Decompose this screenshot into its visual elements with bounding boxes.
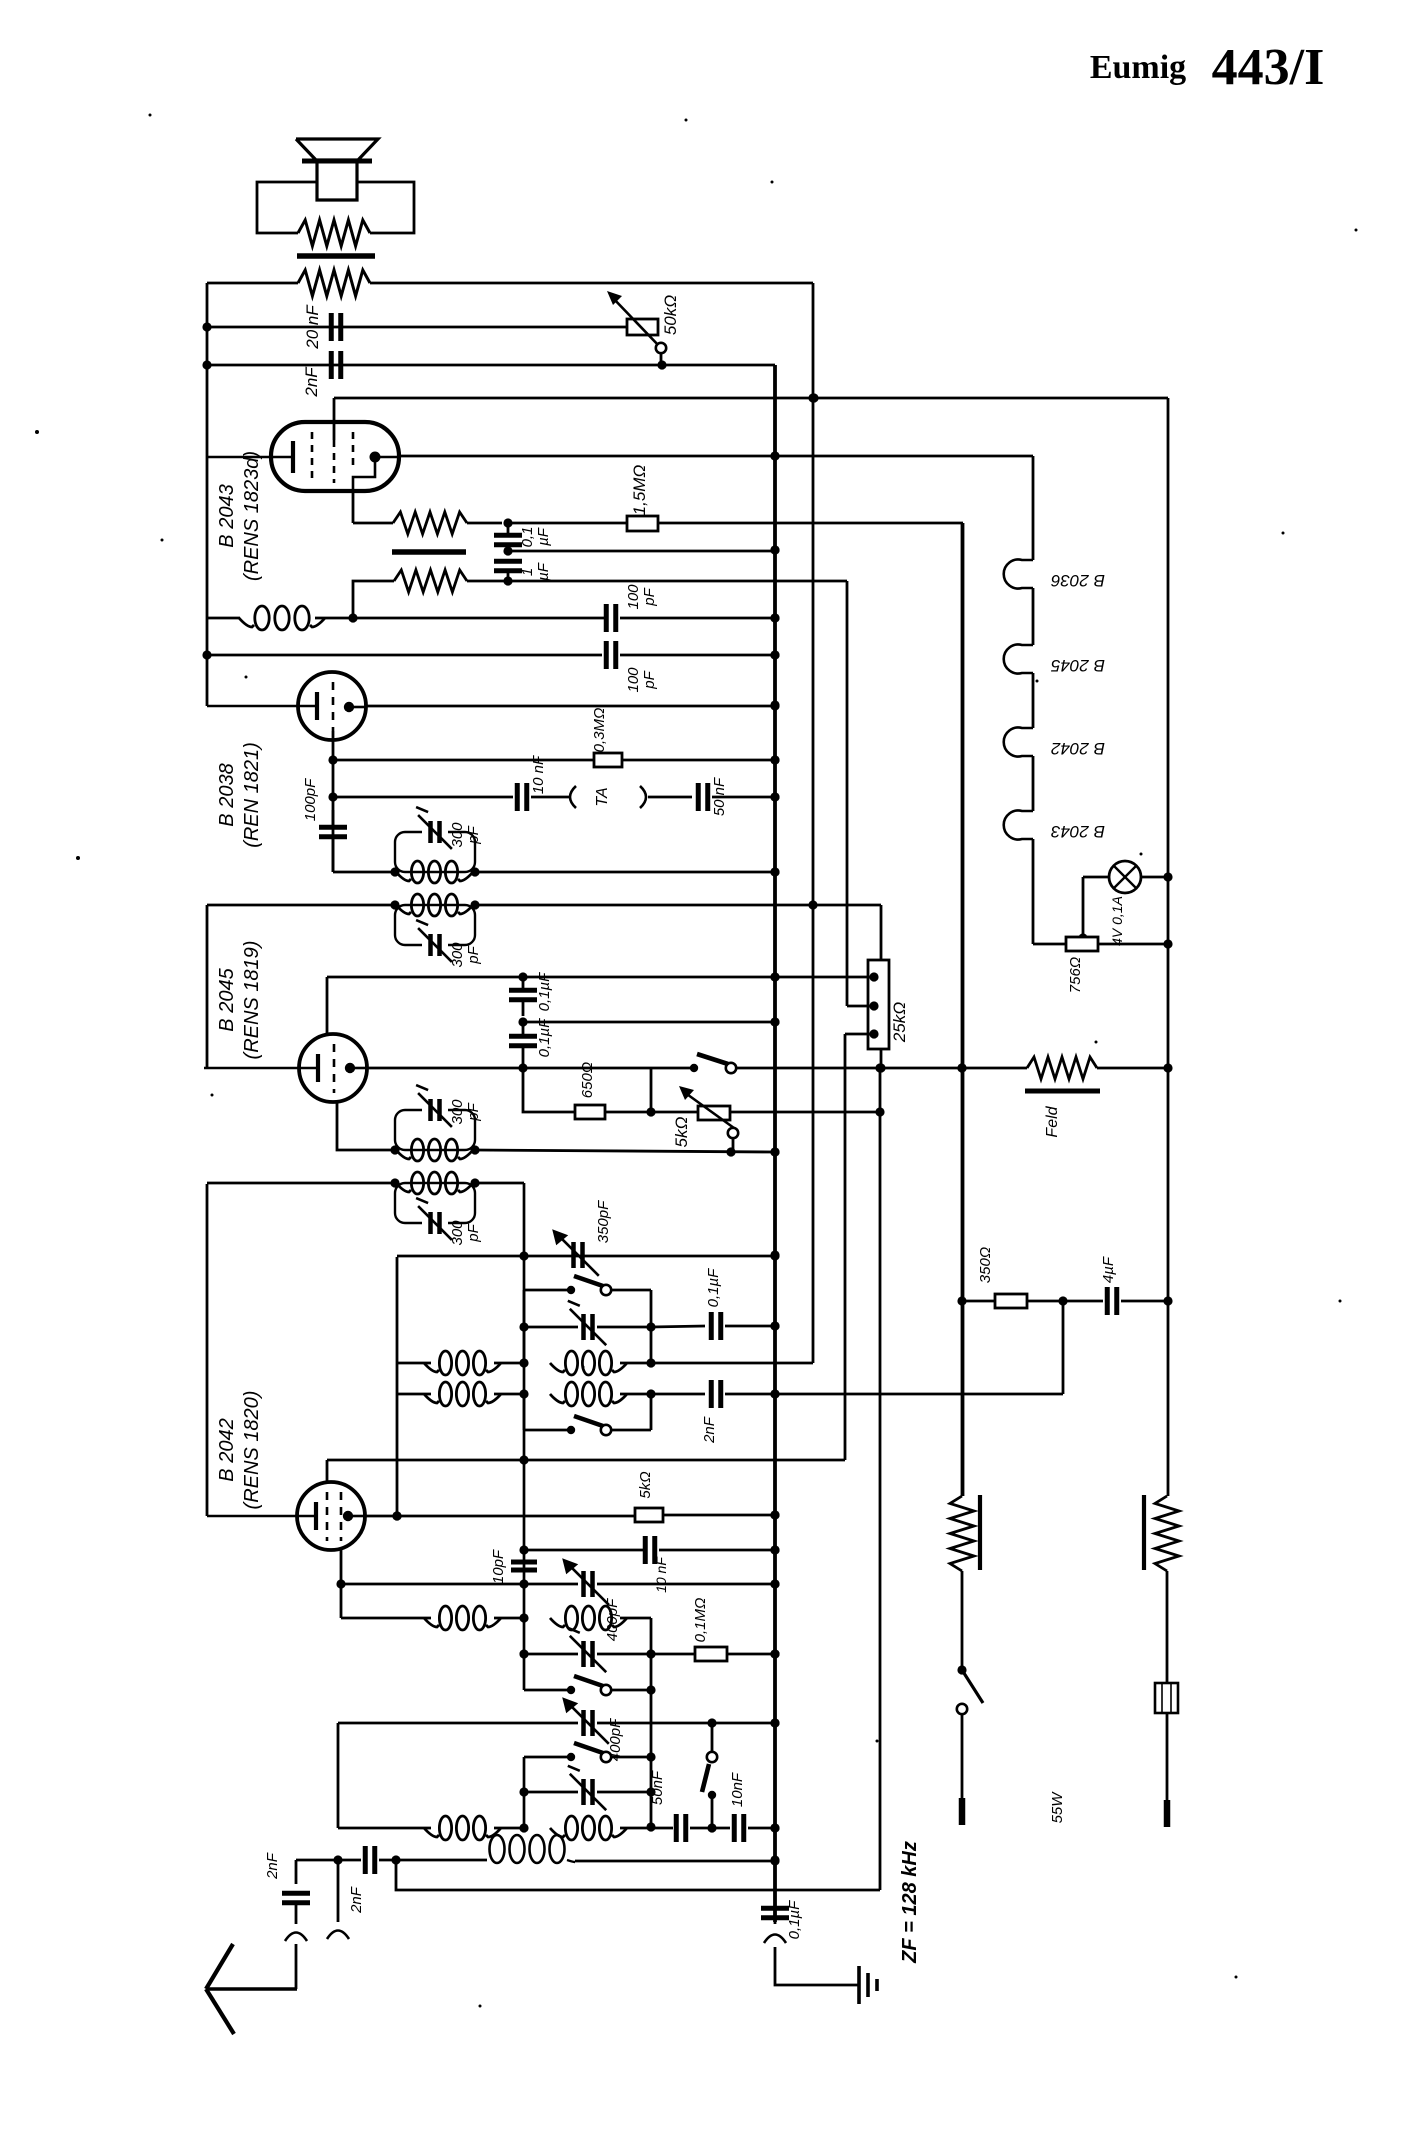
wire row y=550 [508, 545, 780, 554]
capacitor 4µF [1063, 1256, 1168, 1315]
resistor 5kΩ osc [635, 1471, 780, 1522]
svg-text:µF: µF [535, 527, 552, 546]
connector earth socket [327, 1860, 349, 1939]
svg-text:2nF: 2nF [701, 1416, 718, 1444]
svg-text:B 2043: B 2043 [216, 484, 238, 547]
tube heater B 2042 [1004, 728, 1105, 812]
heater resistor left 55W [950, 1495, 980, 1571]
svg-text:(RENS 1823d): (RENS 1823d) [241, 451, 263, 581]
wire pot tap1 y=977 [775, 976, 874, 979]
svg-text:B 2045: B 2045 [1051, 656, 1105, 675]
wire 4uF branch x=1061 [1062, 1301, 1065, 1394]
resistor 350Ω [962, 1247, 1068, 1308]
wire grid row y=1460 [327, 1455, 845, 1464]
resistor anode choke lower [348, 570, 508, 623]
capacitor 100pF a [606, 584, 779, 632]
wire heater-chain rail x=1033 [775, 456, 1033, 560]
resistor anode choke upper [353, 491, 502, 534]
svg-text:350pF: 350pF [595, 1200, 612, 1243]
bus junction dots [770, 451, 779, 1864]
tube B2045 (RENS 1819) [204, 977, 367, 1102]
svg-text:pF: pF [465, 1223, 482, 1242]
wire anode row y=455 [399, 451, 780, 460]
variable capacitor 350pF [552, 1200, 612, 1276]
switch cathode row [651, 1054, 736, 1073]
svg-text:10 nF: 10 nF [530, 755, 547, 794]
svg-text:1: 1 [519, 568, 536, 576]
tube B2042 (RENS 1820) [207, 1460, 365, 1584]
speaker LS [296, 139, 378, 200]
tuned circuit 300pF det-grid [390, 807, 482, 883]
resistor Feld field-coil [962, 1057, 1168, 1138]
wire rail x=962 [957, 523, 966, 1496]
wire grid rail x=332 [328, 755, 337, 872]
variable capacitor 400pF c [562, 1697, 779, 1761]
heater resistor right [1144, 1495, 1179, 1571]
inductor osc coil row y=1363 [397, 1351, 813, 1375]
wire pot tap2 y=1006 [847, 1005, 874, 1008]
variable capacitor 400pF a [562, 1558, 779, 1641]
svg-text:pF: pF [465, 825, 482, 844]
transformer primary winding [298, 220, 370, 246]
wire left rail mid (x=207) [206, 905, 209, 1068]
connector TA left [570, 786, 576, 808]
svg-text:µF: µF [535, 562, 552, 581]
svg-text:0,1µF: 0,1µF [786, 1900, 803, 1939]
wire row grid2 y=398 [334, 393, 1168, 402]
tuned circuit 300pF IF1-anode [390, 1085, 482, 1161]
wire row 2nF line y=365 [207, 360, 775, 369]
wire coil out y=1861 [575, 1856, 780, 1865]
svg-text:100: 100 [625, 584, 642, 610]
wire rect right x=651 lower [646, 1618, 655, 1832]
svg-text:10pF: 10pF [490, 1549, 507, 1584]
wire rect upper left x=525 [519, 1290, 528, 1368]
wire 650 ohm branch [523, 1068, 575, 1112]
resistor 0,1MΩ [692, 1598, 780, 1661]
wire row y=1550 [524, 1549, 643, 1552]
svg-text:Feld: Feld [1044, 1105, 1061, 1137]
svg-text:(REN 1821): (REN 1821) [241, 742, 263, 848]
svg-text:300: 300 [449, 1099, 466, 1125]
switch band b [524, 1676, 651, 1695]
potentiometer 5kΩ tone [672, 1086, 738, 1152]
switch vert [702, 1723, 717, 1828]
wire osc frame x=397 [392, 1257, 401, 1521]
transformer core [297, 253, 375, 259]
wire row y=655 [207, 654, 602, 657]
svg-text:pF: pF [641, 670, 658, 689]
svg-text:5kΩ: 5kΩ [672, 1116, 691, 1147]
capacitor 2nF mix [651, 1380, 1063, 1444]
connector antenna socket [285, 1933, 307, 1942]
svg-text:10 nF: 10 nF [653, 1556, 669, 1593]
tube heater B 2036 [1004, 560, 1105, 646]
resistor 756Ω [1033, 937, 1168, 993]
switch mains [957, 1571, 983, 1714]
svg-text:2nF: 2nF [348, 1886, 365, 1914]
svg-text:pF: pF [465, 945, 482, 964]
svg-text:0,3MΩ: 0,3MΩ [591, 708, 608, 753]
svg-text:B 2042: B 2042 [1051, 739, 1105, 758]
svg-text:756Ω: 756Ω [1067, 957, 1084, 993]
wire row antenna y=1860 [296, 1855, 343, 1864]
variable capacitor 300pF osc1 [524, 1301, 651, 1345]
mains plug pin right [1166, 1713, 1169, 1827]
svg-text:25kΩ: 25kΩ [890, 1002, 909, 1043]
variable capacitor 400pF b [524, 1628, 651, 1672]
wire column x=523 mid [519, 1183, 528, 1690]
wire row speaker line y=283 [207, 282, 813, 285]
capacitor 10nF ant [712, 1772, 780, 1842]
wire tank A to grid [333, 871, 395, 874]
label TA [594, 787, 611, 806]
resistor 650Ω [575, 1062, 656, 1119]
wire row y=977 [327, 972, 780, 981]
tube heater B 2045 [1004, 645, 1105, 729]
svg-text:pF: pF [465, 1102, 482, 1121]
antenna [206, 1944, 297, 2034]
svg-text:B 2045: B 2045 [216, 967, 238, 1031]
wire row y=1152 [475, 1147, 780, 1156]
tube B2038 (REN 1821) [207, 672, 366, 760]
wire tube to tank C [337, 1100, 395, 1150]
svg-text:(RENS 1819): (RENS 1819) [241, 941, 263, 1060]
svg-text:Eumig: Eumig [1090, 49, 1186, 86]
label ZF [899, 1841, 921, 1964]
wire row y=1183 right [475, 1182, 524, 1185]
wire column x=525 lowest [519, 1757, 528, 1827]
capacitor 2nF top [302, 351, 341, 398]
wire row y=1584 [336, 1579, 578, 1588]
wire grid coil row y=1618 [341, 1584, 651, 1630]
svg-text:0,1µF: 0,1µF [536, 1018, 553, 1057]
variable capacitor 400pF d [525, 1766, 651, 1810]
wire row y=1723 [338, 1722, 578, 1725]
svg-text:300: 300 [449, 1220, 466, 1246]
wire row y=1068 right [736, 1063, 967, 1072]
wire right rail x=813 [808, 283, 817, 1363]
svg-text:1,5MΩ: 1,5MΩ [630, 465, 649, 516]
capacitor 1µF interstage [494, 546, 552, 585]
capacitor 10nF osc [645, 1536, 779, 1593]
title Eumig 443/I [1090, 39, 1325, 96]
potentiometer 25kΩ [868, 960, 909, 1073]
capacitor 0,1µF screen b [509, 1018, 553, 1068]
resistor 1,5MΩ [627, 465, 658, 531]
svg-text:(RENS 1820): (RENS 1820) [241, 1391, 263, 1510]
svg-text:2nF: 2nF [302, 366, 321, 398]
svg-text:300: 300 [449, 822, 466, 848]
svg-text:50 nF: 50 nF [711, 777, 728, 816]
capacitor 0,1µF screen a [509, 972, 553, 1016]
svg-text:10nF: 10nF [729, 1772, 746, 1807]
wire row y=760 [333, 759, 594, 762]
svg-text:pF: pF [641, 587, 658, 606]
svg-text:B 2043: B 2043 [1051, 822, 1105, 841]
svg-text:100: 100 [625, 667, 642, 693]
switch band upper [524, 1276, 651, 1295]
svg-text:50kΩ: 50kΩ [661, 295, 680, 335]
svg-text:2nF: 2nF [264, 1852, 281, 1880]
capacitor 100pF grid [302, 778, 347, 872]
wire row y=905 left [207, 904, 395, 907]
inductor IF primary [207, 606, 605, 630]
switch band c [524, 1743, 651, 1762]
label B2045 [216, 941, 263, 1060]
capacitor 100pF b [606, 641, 779, 693]
wire row y=1890 [396, 1068, 880, 1890]
potentiometer 50kΩ [607, 291, 680, 365]
inductor antenna coil [396, 1835, 575, 1863]
svg-text:4µF: 4µF [1100, 1256, 1117, 1283]
wire switch drop x=651 [650, 1068, 653, 1112]
wire left rail upper (x=207) [202, 283, 211, 706]
inductor ant coil row y=1394 [397, 1382, 656, 1406]
lamp 4V 0,1A [1078, 861, 1168, 946]
transformer loop wires [257, 182, 414, 233]
label B2043 [216, 451, 263, 581]
capacitor 2nF series [338, 1846, 401, 1914]
wire row 350pF y=1255 [397, 1251, 780, 1260]
svg-text:B 2036: B 2036 [1051, 571, 1105, 590]
capacitor 50nF ant [649, 1770, 717, 1842]
wire bus rail x=775 [773, 365, 777, 1922]
wire ant coil row y=1828 [338, 1816, 651, 1840]
capacitor 50nF TA [698, 777, 779, 816]
wire tank A right y=872 [475, 867, 780, 876]
svg-text:650Ω: 650Ω [579, 1062, 596, 1098]
wire row 0,1uF y=1326 [651, 1326, 705, 1327]
svg-text:20 nF: 20 nF [303, 304, 322, 350]
capacitor 20nF [303, 304, 341, 350]
svg-text:B 2038: B 2038 [216, 763, 238, 826]
capacitor 0,1µF osc [705, 1268, 780, 1340]
wire anode row y=1068 [367, 1063, 651, 1072]
capacitor 0,1µF chassis [761, 1900, 803, 1939]
tube B2043 (RENS 1823d) [207, 398, 399, 491]
wire 1,5M to rail [658, 523, 963, 1496]
svg-text:5kΩ: 5kΩ [637, 1471, 654, 1498]
wire row 0,1M y=1655 [651, 1653, 695, 1656]
wire pot tap3 y=1034 [845, 1034, 874, 1460]
wire frame x=338 [337, 1723, 340, 1828]
svg-text:0,1µF: 0,1µF [536, 972, 553, 1011]
svg-text:0,1µF: 0,1µF [705, 1268, 722, 1307]
choke core bar [392, 549, 466, 555]
tuned circuit 300pF IF2-anode [390, 894, 482, 968]
wire anode row y=705 [366, 701, 780, 710]
wire row y=905 right [475, 905, 881, 960]
wire anode row y=1516 [365, 1511, 635, 1520]
capacitor 0,1µF interstage [494, 518, 552, 552]
resistor 0,3MΩ [591, 708, 780, 767]
wire row y=1183 left [207, 1182, 395, 1185]
label 55W [1049, 1791, 1066, 1824]
svg-text:350Ω: 350Ω [977, 1247, 994, 1283]
svg-text:300: 300 [449, 942, 466, 968]
connector chassis socket [764, 1935, 786, 1944]
wire row 20nF line y=327 [207, 326, 627, 329]
tuned circuit 300pF mix-grid [390, 1172, 482, 1246]
connector TA right [640, 786, 692, 808]
svg-text:ZF = 128 kHz: ZF = 128 kHz [899, 1841, 921, 1964]
capacitor 10nF TA [517, 755, 569, 811]
capacitor 10pF [490, 1549, 537, 1584]
svg-text:55W: 55W [1049, 1791, 1066, 1824]
wire row y=581 [508, 581, 847, 1006]
mains plug pin left [961, 1714, 964, 1825]
svg-text:4V 0,1A: 4V 0,1A [1109, 896, 1125, 946]
wire left rail lower (x=207) [206, 1184, 209, 1516]
wire rect upper right x=651 [646, 1290, 655, 1368]
svg-text:0,1: 0,1 [519, 527, 536, 548]
capacitor 2nF antenna [264, 1852, 310, 1924]
wire row 5k y=1112 [651, 1107, 885, 1116]
label B2042 [216, 1391, 263, 1510]
switch band mid [524, 1394, 651, 1435]
svg-text:0,1MΩ: 0,1MΩ [692, 1598, 709, 1643]
wire right rail x=1168 [1163, 398, 1172, 1496]
label B2038 [216, 742, 263, 848]
fuse [1155, 1571, 1178, 1713]
transformer secondary winding [298, 270, 370, 296]
svg-text:TA: TA [594, 787, 611, 806]
wire row TA y=797 [333, 796, 513, 799]
svg-text:443/I: 443/I [1212, 39, 1325, 96]
svg-text:B 2042: B 2042 [216, 1418, 238, 1481]
svg-text:100pF: 100pF [302, 778, 319, 821]
tube heater B 2043 [1004, 811, 1105, 945]
svg-text:50nF: 50nF [649, 1770, 666, 1805]
ground [775, 1947, 877, 2004]
wire row y=1022 [518, 1017, 779, 1026]
wire row 1,5M y=523 [508, 522, 627, 525]
